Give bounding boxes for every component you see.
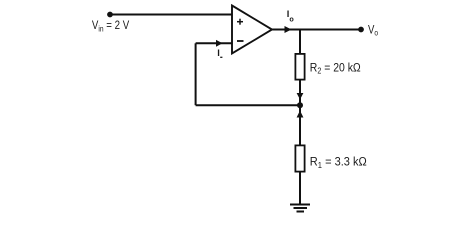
svg-text:R1 = 3.3 kΩ: R1 = 3.3 kΩ xyxy=(310,155,367,170)
wire R1 to ground xyxy=(299,172,301,205)
wire feedback left vertical xyxy=(195,43,197,105)
arrow current up from R1 xyxy=(297,111,304,118)
svg-text:Vo: Vo xyxy=(368,23,378,37)
resistor R2 body xyxy=(295,54,304,80)
svg-text:I: I xyxy=(217,48,220,58)
wire output node down to R2 xyxy=(299,30,301,54)
node feedback junction dot xyxy=(297,102,303,108)
op-amp U1 triangle xyxy=(232,6,272,54)
arrow current down through R2 xyxy=(297,93,304,100)
arrow current into - input xyxy=(216,40,223,47)
wire op-amp output to Vo xyxy=(272,29,361,31)
arrow output current Io xyxy=(285,26,292,33)
wire feedback into - input xyxy=(196,42,232,44)
op-amp + input marker xyxy=(237,19,243,25)
wire R2 to feedback node xyxy=(299,81,301,106)
node Vin terminal dot xyxy=(107,12,113,18)
node Vo terminal dot xyxy=(358,27,364,33)
wire feedback bottom horizontal xyxy=(196,104,300,106)
wire junction to R1 xyxy=(299,105,301,145)
svg-text:R2 = 20 kΩ: R2 = 20 kΩ xyxy=(310,62,361,76)
resistor R1 body xyxy=(295,145,304,171)
svg-text:o: o xyxy=(289,15,294,24)
wire Vin to op-amp + input xyxy=(110,14,232,16)
op-amp - input marker xyxy=(237,40,244,42)
svg-text:Vin = 2 V: Vin = 2 V xyxy=(92,19,130,33)
ground symbol xyxy=(290,205,310,212)
